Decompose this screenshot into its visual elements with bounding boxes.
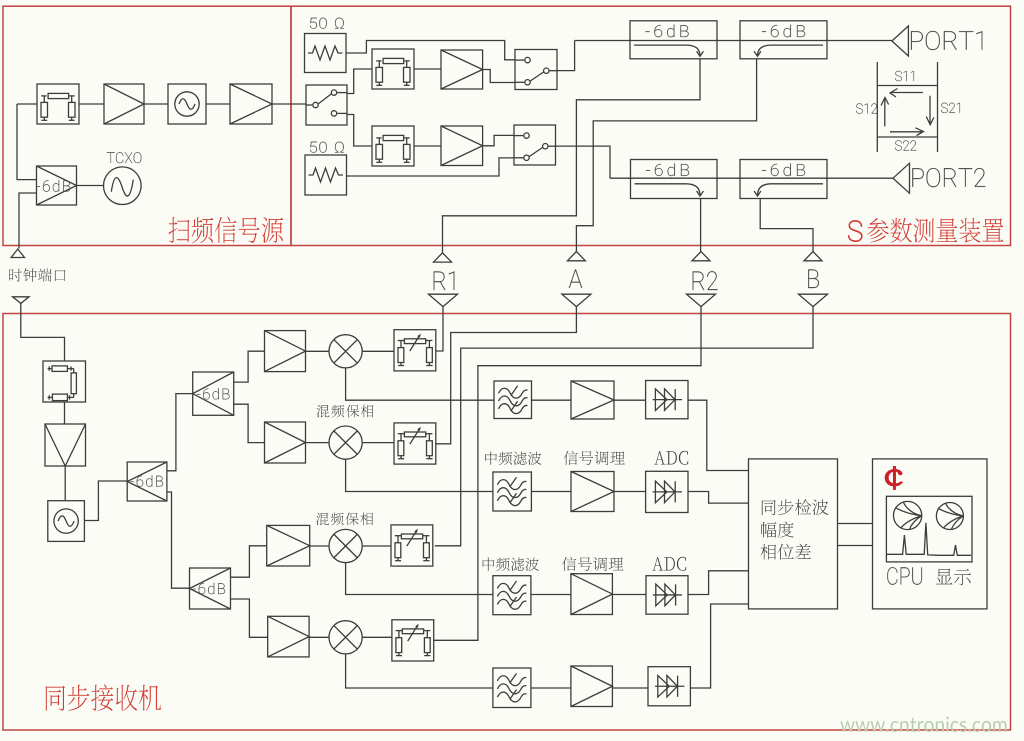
label CPU [887, 567, 922, 585]
wire: SP3 to amplifier A9 [231, 599, 268, 637]
label S22 [895, 140, 916, 150]
wire: -6dB pad to TCXO [77, 185, 104, 187]
label R2 [693, 271, 718, 290]
pulse waveform [887, 523, 971, 556]
signal conditioner amplifier SC1 [571, 381, 614, 419]
wire: mixer M2 IF out to filter F2 [346, 459, 493, 491]
wire: clock port up to -6dB pad [19, 193, 37, 249]
wire: F2 to conditioner amp [531, 491, 571, 493]
wire: mixer M3 IF out to filter F3 [346, 563, 493, 595]
wire: amp to mixer M1 [306, 350, 330, 352]
label S-parameter measuring device CJK (red) [867, 218, 1003, 243]
splitter SP1 -6dB [127, 462, 167, 501]
label phase difference [760, 544, 810, 560]
wire: SP1 to splitter SP3 [167, 492, 190, 588]
directional coupler DC3 -6dB [631, 160, 718, 199]
label signal conditioning (lower) [562, 557, 623, 571]
variable attenuator AT2 [394, 423, 436, 464]
amplifier LO A7 [265, 422, 306, 463]
wire: XT2 to amplifier A3 [414, 68, 441, 70]
label sync detect [762, 499, 829, 515]
directional coupler DC4 -6dB [740, 160, 827, 199]
node R1 arrow (down) [429, 294, 458, 306]
polar plot right [936, 503, 963, 530]
label IF filter (upper) [485, 452, 541, 466]
label amplitude [761, 522, 794, 538]
label S21 [941, 103, 960, 113]
wire: XT3 to amplifier A4 [414, 145, 441, 147]
display screen [886, 496, 972, 562]
label -6dB DC2 [762, 25, 805, 38]
IF filter F3 [493, 576, 531, 615]
wire: DC1 tap to node R1 [443, 59, 701, 253]
wire: F3 to conditioner amp [531, 594, 571, 596]
amplifier LO A9 [268, 616, 309, 657]
label -6dB SP2 [197, 388, 230, 399]
wire: mixer M4 to attenuator AT4 [362, 636, 392, 638]
node R2 arrow (up) [692, 252, 710, 261]
crystal filter XT2 [372, 49, 414, 89]
wire: clock down into receiver [21, 303, 65, 361]
wire: F1 to conditioner amp [532, 399, 572, 401]
label PORT1 [911, 31, 982, 50]
ADC detector D2 [646, 471, 688, 512]
frame: sweep source box (red) [3, 6, 291, 245]
frame: S-parameter measurement box (red) [291, 6, 1011, 245]
wire: node A to AT2 [436, 307, 577, 444]
wire: D1 to sync detector [688, 400, 749, 470]
wire: mixer M1 IF out to filter F1 [346, 368, 494, 400]
watermark www.cntronics.com [840, 717, 1006, 733]
wire: A1 to oscillator G1 [144, 103, 168, 105]
label R1 [434, 272, 455, 291]
wire: D3 to sync detector [688, 571, 749, 595]
label 50 ohm (lower) [310, 142, 344, 153]
ADC detector D4 [648, 667, 690, 706]
IF filter F4 [493, 668, 531, 708]
label -6dB SP3 [192, 583, 225, 594]
node R2 arrow (down) [687, 294, 716, 306]
amplifier A3 [441, 50, 483, 89]
sync detector box U2 [749, 459, 838, 609]
wire: SC3 to ADC detector [612, 594, 646, 596]
wire: S1 upper throw to crystal XT2 [347, 69, 372, 94]
wire: DC2 tap to node A [576, 59, 756, 252]
splitter SP3 -6dB [190, 568, 231, 609]
wire: SC1 to ADC detector [614, 399, 646, 401]
label -6dB DC4 [762, 163, 805, 176]
label synchronous receiver (red) [46, 684, 161, 710]
wire: node R2 to AT4 [434, 307, 701, 641]
label mixer phase-lock (lower) [316, 513, 373, 526]
wire: D2 to sync detector [688, 492, 749, 504]
mixer M1 [329, 335, 362, 368]
wire: PORT1 through line [575, 40, 892, 42]
wire: SP2 to amplifier A6 [234, 351, 265, 382]
wire: sync to CPU lower [838, 545, 873, 547]
wire: A2 output to switch S1 [272, 103, 306, 105]
wire: G3 to splitter SP1 [84, 481, 127, 521]
mixer M4 [329, 621, 362, 654]
switch S2 [515, 50, 557, 90]
wire: sync to CPU upper [838, 523, 873, 525]
label sweep signal source (red) [169, 217, 284, 244]
wire: SC2 to ADC detector [614, 491, 646, 493]
label -6dB SP1 [130, 475, 163, 486]
directional coupler DC2 -6dB [740, 21, 827, 59]
clock port arrow (down) [13, 297, 29, 304]
wire: node down left side to -6dB pad input [17, 104, 37, 180]
label -6dB on U1 [37, 180, 71, 192]
S-parameter graph frame [877, 62, 937, 152]
label S12 [856, 103, 877, 113]
IF filter F1 [494, 381, 532, 419]
termination resistor 50ohm R1t [305, 34, 347, 73]
variable attenuator AT3 [391, 525, 433, 566]
oscillator G3 [48, 501, 85, 542]
wire: SP1 to splitter SP2 [167, 394, 193, 471]
label signal conditioning (upper) [564, 451, 625, 465]
polar plot left [894, 501, 922, 529]
label PORT2 [912, 168, 985, 187]
wire: 50ohm lower to switch S3 [347, 158, 514, 176]
label TCXO [107, 152, 141, 163]
amplifier A4 [441, 126, 483, 166]
wire: amp to mixer M2 [306, 442, 330, 444]
label display CJK [936, 569, 971, 585]
node B arrow (up) [804, 252, 822, 261]
label A [569, 270, 582, 289]
frame: synchronous receiver box (red) [3, 314, 1011, 731]
amplifier LO A6 [265, 331, 306, 372]
PORT1 connector [892, 26, 909, 56]
wire: G1 to amplifier A2 [206, 103, 230, 105]
amplifier A5 [45, 424, 86, 466]
wire: A4 to switch S3 [483, 135, 514, 145]
variable attenuator AT4 [392, 620, 434, 661]
wire: node R1 to AT1 [436, 307, 443, 351]
signal conditioner amplifier SC2 [571, 472, 614, 512]
crystal filter XT3 [372, 126, 414, 166]
wire: mixer M4 IF out to filter F4 [346, 654, 493, 688]
ADC detector D1 [646, 381, 688, 419]
label clock port [9, 268, 65, 281]
wire: XT4 to amplifier A5 [64, 402, 66, 424]
wire: SP3 to amplifier A8 [231, 546, 267, 577]
wire: node B to AT3 [435, 307, 813, 546]
wire: input node to crystal XT1 [17, 103, 37, 105]
label S-parameter measuring device (red) [848, 220, 862, 241]
wire: DC3 tap to node R2 [700, 199, 702, 252]
label IF filter (lower) [483, 558, 539, 572]
signal conditioner amplifier SC3 [571, 574, 613, 615]
termination resistor 50ohm R2t [305, 155, 347, 195]
wire: A3 to switch S2 [483, 70, 515, 83]
wire: S3 common to PORT2 through line [556, 146, 611, 178]
label ADC (lower) [652, 557, 686, 571]
wire: A5 to oscillator G3 [64, 466, 66, 501]
label S11 [895, 71, 914, 81]
S-parameter graph arrows [881, 89, 934, 136]
label B [808, 270, 819, 289]
label -6dB DC1 [646, 25, 689, 38]
amplifier A2 [230, 84, 272, 124]
crystal filter XT1 [37, 84, 79, 124]
label ADC (upper) [654, 451, 688, 465]
wire: S1 lower throw to crystal XT3 [347, 115, 372, 147]
wire: amp to mixer M3 [310, 545, 329, 547]
mixer M2 [329, 426, 362, 459]
ADC detector D3 [646, 576, 688, 615]
node B arrow (down) [799, 294, 828, 306]
wire: mixer M3 to attenuator AT3 [362, 545, 391, 547]
wire: SC4 to ADC detector [612, 687, 648, 689]
switch S1 [306, 85, 347, 125]
wire: mixer M2 to attenuator AT2 [362, 442, 394, 444]
node A arrow (up) [567, 252, 585, 261]
directional coupler DC1 -6dB [630, 21, 717, 59]
node R1 arrow (up) [434, 253, 452, 262]
wire: XT1 to amplifier A1 [79, 103, 104, 105]
wire: 50ohm upper to switch S2 via top [346, 41, 515, 60]
wire: DC4 tap to node B [760, 199, 813, 252]
signal conditioner amplifier SC4 [571, 666, 613, 707]
TCXO oscillator G2 [104, 167, 142, 205]
amplifier LO A8 [267, 525, 310, 566]
oscillator G1 [168, 84, 206, 124]
wire: D4 to sync detector [690, 604, 748, 688]
wire: amp to mixer M4 [309, 636, 329, 638]
label -6dB DC3 [646, 163, 689, 176]
wire: SP2 to amplifier A7 [234, 404, 265, 442]
IF filter F2 [493, 472, 532, 511]
splitter SP2 -6dB [193, 372, 234, 415]
red cent logo glyph [886, 467, 902, 489]
wire: S2 common up to PORT1 through line [557, 41, 575, 71]
clock port arrow (up) [11, 249, 24, 258]
amplifier A1 [104, 84, 144, 124]
wire: PORT2 through line [610, 177, 893, 179]
mixer M3 [329, 529, 362, 562]
CPU display box U3 [873, 459, 988, 609]
wire: mixer M1 to attenuator AT1 [362, 350, 394, 352]
node A arrow (down) [562, 294, 591, 306]
variable attenuator AT1 [394, 330, 436, 371]
crystal filter XT4 [43, 361, 86, 402]
label 50 ohm (upper) [310, 18, 344, 29]
attenuator -6dB U1 [37, 166, 77, 205]
wire: F4 to conditioner amp [531, 687, 571, 689]
PORT2 connector [893, 163, 910, 193]
label mixer phase-lock (upper) [317, 405, 374, 418]
switch S3 [514, 125, 556, 165]
